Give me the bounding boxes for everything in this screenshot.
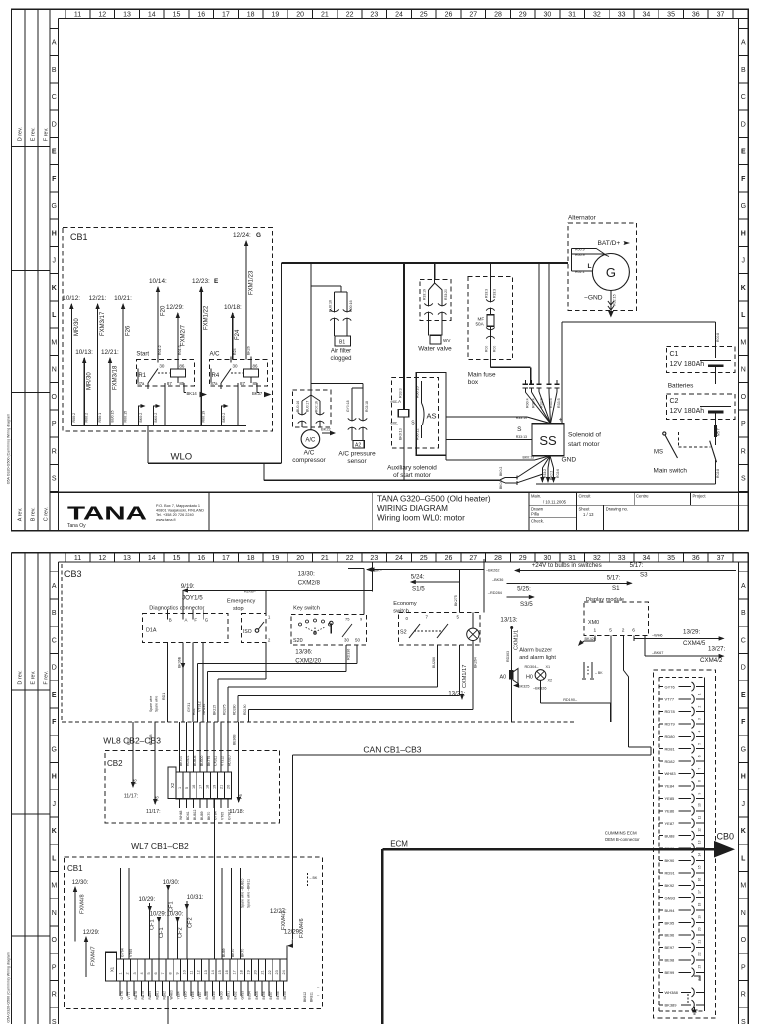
sensor A2 pressure wires <box>351 388 353 441</box>
svg-text:24: 24 <box>395 12 403 19</box>
svg-text:R33:5: R33:5 <box>557 398 561 408</box>
svg-text:D: D <box>52 121 57 128</box>
svg-text:14: 14 <box>698 853 702 857</box>
svg-text:–WH6: –WH6 <box>652 634 663 638</box>
svg-text:23: 23 <box>698 965 702 969</box>
svg-text:31: 31 <box>568 555 576 562</box>
svg-text:BK92: BK92 <box>665 883 676 888</box>
relay R1 Start <box>136 360 194 387</box>
wire key switch riser 13/30 <box>348 568 364 570</box>
svg-text:O: O <box>741 394 747 401</box>
svg-text:J: J <box>742 258 746 265</box>
svg-text:BU0:16: BU0:16 <box>296 401 300 412</box>
svg-text:of start motor: of start motor <box>393 472 432 479</box>
svg-text:34: 34 <box>642 12 650 19</box>
svg-text:12: 12 <box>698 828 702 832</box>
svg-text:H: H <box>741 230 746 237</box>
svg-text:13: 13 <box>204 970 208 974</box>
svg-text:RD82: RD82 <box>665 759 676 764</box>
svg-text:26: 26 <box>445 12 453 19</box>
svg-text:13/36:: 13/36: <box>295 649 312 656</box>
svg-text:E: E <box>741 149 746 156</box>
main fuse box dashed <box>468 277 513 360</box>
svg-text:FXM4/7: FXM4/7 <box>91 946 97 966</box>
svg-text:BK36B: BK36B <box>149 734 153 745</box>
svg-text:12/27:: 12/27: <box>270 909 287 915</box>
svg-text:14: 14 <box>148 555 156 562</box>
relay R1 coil <box>170 369 185 377</box>
svg-text:WV: WV <box>443 338 451 343</box>
sensor B1 air filter box <box>335 336 351 346</box>
svg-text:clogged: clogged <box>330 356 351 362</box>
connector box CB3 left edge <box>61 564 63 722</box>
svg-text:12/29:: 12/29: <box>83 930 100 936</box>
svg-text:BK0:2: BK0:2 <box>550 471 554 480</box>
wire emergency stop bottom <box>265 643 267 680</box>
svg-text:R00:16: R00:16 <box>315 401 319 412</box>
svg-text:10/14:: 10/14: <box>149 278 167 285</box>
svg-text:14: 14 <box>148 12 156 19</box>
wire display pin5 down <box>610 635 612 722</box>
svg-text:L: L <box>741 312 746 319</box>
battery C1 dashed box <box>666 347 734 373</box>
svg-text:– BK: – BK <box>310 876 318 880</box>
svg-text:16: 16 <box>192 785 196 789</box>
svg-text:32: 32 <box>593 555 601 562</box>
CB0 elbow wire <box>694 976 700 981</box>
wire to auxiliary solenoid <box>403 263 405 410</box>
svg-text:– BK: – BK <box>595 671 603 675</box>
svg-text:35: 35 <box>667 12 675 19</box>
svg-text:Air filter: Air filter <box>331 349 351 355</box>
wire RD190 <box>541 702 611 704</box>
svg-text:5/17:: 5/17: <box>630 562 644 569</box>
wire riser to main bus <box>281 263 283 463</box>
battery C2 plates <box>700 406 731 408</box>
svg-text:22: 22 <box>346 12 354 19</box>
svg-text:29: 29 <box>519 12 527 19</box>
svg-text:S: S <box>52 1019 57 1024</box>
svg-text:E rev.: E rev. <box>31 670 37 684</box>
svg-text:36: 36 <box>692 12 700 19</box>
svg-text:BK0:2: BK0:2 <box>154 413 158 423</box>
svg-text:E: E <box>52 149 57 156</box>
wire diagnostics pin A riser <box>182 590 184 613</box>
svg-text:CB1: CB1 <box>70 232 88 242</box>
svg-text:A/C: A/C <box>305 438 316 444</box>
svg-text:S: S <box>517 426 522 433</box>
svg-text:11/17:: 11/17: <box>124 794 139 800</box>
svg-text:R02:15: R02:15 <box>613 294 617 306</box>
svg-text:37: 37 <box>717 555 725 562</box>
svg-text:11: 11 <box>698 816 702 820</box>
svg-text:CB1: CB1 <box>67 864 83 873</box>
svg-text:CB2: CB2 <box>107 759 123 768</box>
svg-text:G: G <box>52 203 57 210</box>
svg-text:13/13:: 13/13: <box>500 617 517 624</box>
svg-text:R33:19: R33:19 <box>516 416 527 420</box>
wire tap to BK ground run <box>263 463 265 480</box>
svg-text:O: O <box>52 937 58 944</box>
svg-text:R33:19: R33:19 <box>423 289 427 300</box>
wire arrow F24 10/18 <box>232 313 234 360</box>
svg-text:1: 1 <box>119 972 123 974</box>
svg-text:A rev.: A rev. <box>18 507 24 521</box>
svg-text:11: 11 <box>190 971 194 975</box>
svg-text:16: 16 <box>197 555 205 562</box>
relay R4 A/C <box>210 360 268 387</box>
svg-text:R56:1: R56:1 <box>98 413 102 423</box>
svg-text:CF2: CF2 <box>177 927 183 938</box>
svg-text:H0: H0 <box>526 675 533 681</box>
svg-text:VT65: VT65 <box>129 949 133 957</box>
svg-text:BK811: BK811 <box>310 992 314 1002</box>
svg-text:BK14: BK14 <box>187 391 198 396</box>
svg-text:12: 12 <box>197 970 201 974</box>
bus wire CB1 bottom <box>71 425 246 427</box>
svg-text:Tana Oy: Tana Oy <box>67 523 86 529</box>
svg-text:F rev.: F rev. <box>44 670 50 684</box>
svg-text:BU88: BU88 <box>665 833 676 838</box>
svg-text:20: 20 <box>226 785 230 789</box>
svg-text:1: 1 <box>594 628 597 634</box>
arrow FXM4/8 12/30 <box>74 887 76 942</box>
svg-text:BK0:2: BK0:2 <box>222 413 226 423</box>
svg-text:GY76: GY76 <box>120 991 124 1000</box>
svg-text:32: 32 <box>593 12 601 19</box>
svg-text:VT312: VT312 <box>221 756 225 766</box>
CB0 entries WH388 BK389 <box>659 991 663 993</box>
svg-text:23: 23 <box>275 970 279 974</box>
svg-text:RD190: RD190 <box>243 704 247 715</box>
svg-text:R00:12: R00:12 <box>416 428 420 440</box>
svg-text:20: 20 <box>698 927 702 931</box>
svg-text:BU300: BU300 <box>200 756 204 766</box>
svg-text:12/21:: 12/21: <box>89 295 107 302</box>
svg-text:5: 5 <box>609 628 612 634</box>
svg-text:RD303: RD303 <box>506 651 510 662</box>
svg-text:C1: C1 <box>670 351 679 358</box>
svg-text:30: 30 <box>544 12 552 19</box>
svg-text:G: G <box>205 618 209 623</box>
svg-text:R00:2: R00:2 <box>72 413 76 423</box>
svg-text:BU88: BU88 <box>205 991 209 999</box>
svg-text:FXM1/23: FXM1/23 <box>249 270 255 295</box>
svg-text:RD79: RD79 <box>665 722 676 727</box>
svg-text:exc.A: exc.A <box>391 399 402 404</box>
svg-text:RD80: RD80 <box>148 991 152 1000</box>
svg-text:P.O. Box 7, Mappankatu 1: P.O. Box 7, Mappankatu 1 <box>156 504 200 508</box>
svg-text:13/29:: 13/29: <box>683 629 700 636</box>
svg-text:R00:4: R00:4 <box>532 398 536 408</box>
svg-text:RD91: RD91 <box>665 871 676 876</box>
svg-text:50: 50 <box>355 638 360 643</box>
wire 9/19 continuation <box>266 589 372 591</box>
wire arrow MR/30 <box>83 358 85 426</box>
svg-text:BK95: BK95 <box>255 991 259 999</box>
svg-text:20: 20 <box>254 970 258 974</box>
svg-text:X1: X1 <box>110 966 115 972</box>
svg-text:E: E <box>741 692 746 699</box>
svg-text:23: 23 <box>370 555 378 562</box>
wire relay R1 pin87 to bus <box>164 389 166 426</box>
svg-text:R01:3: R01:3 <box>178 345 182 355</box>
svg-text:BAT/D+: BAT/D+ <box>598 240 621 247</box>
wire display pin2 down <box>622 641 624 670</box>
row letter strip <box>737 19 739 531</box>
svg-text:21: 21 <box>321 555 329 562</box>
svg-text:A/C pressure: A/C pressure <box>338 451 376 458</box>
svg-text:Spare wire: Spare wire <box>149 696 153 712</box>
svg-text:A/C: A/C <box>210 352 221 358</box>
wire to main fuse box <box>489 263 491 315</box>
svg-text:10: 10 <box>698 803 702 807</box>
svg-text:YE87: YE87 <box>665 821 676 826</box>
svg-text:WH295: WH295 <box>202 704 206 715</box>
svg-text:22: 22 <box>346 555 354 562</box>
svg-text:G5A G320-G500 (Cummins) Wiri: G5A G320-G500 (Cummins) Wiring diagram <box>7 952 11 1023</box>
svg-text:R02:1: R02:1 <box>575 270 585 274</box>
svg-text:start motor: start motor <box>568 441 600 448</box>
key switch box S20 <box>291 614 367 645</box>
svg-text:17: 17 <box>222 555 230 562</box>
svg-text:5: 5 <box>698 743 702 745</box>
svg-text:J: J <box>742 801 746 808</box>
svg-text:40801 Vaajakoski, FINLAND: 40801 Vaajakoski, FINLAND <box>156 509 204 513</box>
svg-text:RD310: RD310 <box>227 755 231 766</box>
svg-text:30: 30 <box>344 638 349 643</box>
diagnostics wires down <box>166 643 168 722</box>
svg-text:R: R <box>741 448 746 455</box>
svg-text:9: 9 <box>175 972 179 974</box>
svg-text:R00: R00 <box>484 346 488 352</box>
svg-text:–BK36: –BK36 <box>492 578 503 582</box>
svg-text:Economy: Economy <box>393 601 417 607</box>
svg-text:BK26: BK26 <box>247 346 251 355</box>
svg-text:R33:13: R33:13 <box>516 435 527 439</box>
svg-text:BK700: BK700 <box>179 756 183 766</box>
svg-text:Centre: Centre <box>636 494 649 499</box>
svg-text:11: 11 <box>74 12 81 19</box>
display module box XM0 <box>584 602 649 635</box>
svg-text:87a: 87a <box>137 381 145 386</box>
svg-text:R02:8: R02:8 <box>716 469 720 478</box>
svg-text:3: 3 <box>698 718 702 720</box>
svg-text:K: K <box>741 828 746 835</box>
title block grid <box>529 504 748 506</box>
svg-text:12/23:: 12/23: <box>192 278 210 285</box>
battery C1 plates <box>700 359 731 361</box>
svg-text:BU808: BU808 <box>193 756 197 766</box>
svg-text:R: R <box>741 992 746 999</box>
svg-text:BK22: BK22 <box>321 427 332 432</box>
CB0 connector entries <box>659 686 663 688</box>
svg-text:P: P <box>741 964 746 971</box>
svg-text:21: 21 <box>261 970 265 974</box>
svg-text:10/29:: 10/29: <box>150 912 167 918</box>
svg-text:F: F <box>741 719 746 726</box>
svg-text:L: L <box>741 855 746 862</box>
svg-text:J: J <box>53 801 57 808</box>
svg-text:86: 86 <box>179 364 185 369</box>
svg-text:O: O <box>741 937 747 944</box>
svg-text:E rev.: E rev. <box>31 127 37 141</box>
column number ruler <box>59 18 749 20</box>
svg-text:5: 5 <box>147 972 151 974</box>
svg-text:BU94: BU94 <box>248 991 252 999</box>
svg-text:GY31: GY31 <box>187 703 191 712</box>
svg-text:AS: AS <box>427 412 437 421</box>
svg-text:R33:9: R33:9 <box>539 398 543 408</box>
svg-text:M: M <box>740 339 746 346</box>
svg-text:ISO: ISO <box>243 629 252 635</box>
CB2 wires above <box>178 722 180 772</box>
junction hook arrows on bus <box>139 406 145 411</box>
svg-text:www.tana.fi: www.tana.fi <box>156 518 176 522</box>
svg-text:37: 37 <box>717 12 725 19</box>
svg-text:S3: S3 <box>640 572 648 579</box>
svg-text:FXM3/18: FXM3/18 <box>113 365 119 390</box>
svg-text:RD79: RD79 <box>141 991 145 1000</box>
svg-text:RD336: RD336 <box>347 649 351 660</box>
key switch rotary contacts <box>299 623 302 626</box>
svg-text:CF2: CF2 <box>188 917 194 928</box>
svg-text:Diagnostics connector: Diagnostics connector <box>149 606 204 612</box>
row letter strip <box>58 19 60 531</box>
svg-text:25: 25 <box>420 12 428 19</box>
svg-text:BK70: BK70 <box>231 949 235 957</box>
svg-text:R33:20: R33:20 <box>444 289 448 300</box>
svg-text:85: 85 <box>253 381 259 386</box>
svg-text:D rev.: D rev. <box>18 670 24 685</box>
svg-text:6: 6 <box>632 628 635 634</box>
svg-text:R4: R4 <box>212 373 220 379</box>
svg-text:FXM1/22: FXM1/22 <box>204 305 210 330</box>
svg-text:15: 15 <box>173 12 181 19</box>
svg-text:TANA: TANA <box>67 504 147 524</box>
svg-text:17: 17 <box>199 785 203 789</box>
svg-text:A: A <box>185 618 188 623</box>
svg-text:10/31:: 10/31: <box>187 895 204 901</box>
CB1 wires below strip <box>119 981 121 996</box>
ground bus wire <box>536 483 716 485</box>
svg-text:MS: MS <box>654 450 663 456</box>
svg-text:Alarm buzzer: Alarm buzzer <box>519 648 552 654</box>
svg-text:13: 13 <box>698 840 702 844</box>
svg-text:−GND: −GND <box>584 295 603 302</box>
svg-text:JOY1/5: JOY1/5 <box>182 595 203 602</box>
svg-text:Alternator: Alternator <box>568 215 597 222</box>
row letter strip <box>58 562 60 1024</box>
svg-text:Main.: Main. <box>531 494 541 499</box>
svg-text:Key switch: Key switch <box>293 606 320 612</box>
alternator terminals <box>571 247 596 249</box>
svg-text:2: 2 <box>126 972 130 974</box>
svg-text:P: P <box>741 421 746 428</box>
svg-text:XM0: XM0 <box>588 620 599 626</box>
svg-text:12/30:: 12/30: <box>72 880 89 886</box>
svg-text:21: 21 <box>698 940 702 944</box>
CB0 connector rail <box>704 678 706 1011</box>
svg-text:VT312: VT312 <box>198 701 202 712</box>
svg-text:O: O <box>52 394 58 401</box>
svg-text:Emergency: Emergency <box>227 599 255 605</box>
svg-text:CXM4/5: CXM4/5 <box>683 640 706 647</box>
svg-text:F5: F5 <box>133 778 138 784</box>
svg-text:19: 19 <box>272 555 280 562</box>
svg-text:C2: C2 <box>670 398 679 405</box>
svg-text:BE99: BE99 <box>283 991 287 999</box>
svg-text:RD78: RD78 <box>134 991 138 1000</box>
svg-text:Auxiliary solenoid: Auxiliary solenoid <box>387 465 437 472</box>
svg-text:Sheet: Sheet <box>579 507 591 512</box>
fuse link M57 <box>714 425 717 437</box>
wire AS bottom BK0:13 <box>445 455 447 460</box>
wire fuse output <box>489 326 491 367</box>
svg-text:S20: S20 <box>293 638 303 644</box>
svg-text:WIRING DIAGRAM: WIRING DIAGRAM <box>377 504 448 513</box>
wire emergency stop top <box>265 590 267 613</box>
svg-text:C: C <box>52 94 57 101</box>
emergency stop box ISO <box>241 613 266 642</box>
svg-text:C rev.: C rev. <box>44 507 50 522</box>
svg-text:5/24:: 5/24: <box>411 574 425 581</box>
ECM thick wire <box>382 848 714 851</box>
svg-text:18: 18 <box>247 12 255 19</box>
wire BK262 <box>483 559 485 569</box>
svg-text:11: 11 <box>74 555 81 562</box>
svg-text:/ 10.11.2005: / 10.11.2005 <box>543 499 567 504</box>
auxiliary solenoid AS box <box>416 372 446 455</box>
svg-text:RD91: RD91 <box>226 991 230 1000</box>
svg-text:S: S <box>52 476 57 483</box>
svg-text:Drawing no.: Drawing no. <box>606 507 628 512</box>
svg-text:B: B <box>52 610 57 617</box>
border frame outer <box>12 552 749 554</box>
title block <box>50 491 748 493</box>
wire arrow F26 <box>122 304 124 426</box>
water valve WV box <box>430 335 441 344</box>
svg-text:10/13:: 10/13: <box>75 349 93 356</box>
svg-text:BK812: BK812 <box>303 992 307 1002</box>
svg-text:R00:4: R00:4 <box>526 398 530 408</box>
svg-text:12/21:: 12/21: <box>101 349 119 356</box>
svg-text:VT77: VT77 <box>665 697 675 702</box>
svg-text:M: M <box>740 883 746 890</box>
svg-text:FXM4/8: FXM4/8 <box>80 894 86 914</box>
svg-text:36: 36 <box>692 555 700 562</box>
CB1 wires above strip <box>120 868 122 959</box>
wire arrow FXM2/7 12/29 <box>177 313 179 360</box>
svg-text:BK0:2: BK0:2 <box>499 480 503 489</box>
svg-text:22: 22 <box>698 952 702 956</box>
svg-text:16: 16 <box>225 970 229 974</box>
svg-text:F rev.: F rev. <box>44 127 50 141</box>
svg-text:R00:8: R00:8 <box>716 333 720 342</box>
svg-text:M5 7: M5 7 <box>717 428 721 436</box>
svg-text:B: B <box>169 618 172 623</box>
svg-text:18: 18 <box>698 902 702 906</box>
svg-text:CAN CB1–CB3: CAN CB1–CB3 <box>363 745 421 755</box>
svg-text:FXM2/7: FXM2/7 <box>180 324 186 346</box>
svg-text:19: 19 <box>698 915 702 919</box>
svg-text:RD1: RD1 <box>162 693 166 700</box>
svg-text:RD78: RD78 <box>665 709 676 714</box>
alternator ground wire <box>610 291 612 315</box>
connector box CB0 inner <box>658 678 660 1011</box>
wire battery+ to SS <box>561 322 563 424</box>
svg-text:16: 16 <box>698 878 702 882</box>
